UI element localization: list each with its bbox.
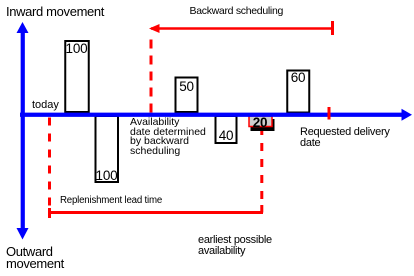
label replenishment lead time [60,196,162,206]
bar supply 50 above axis [176,78,198,113]
label backward scheduling [190,6,284,17]
requested delivery date tick [328,107,331,120]
value 60 [287,71,310,85]
shadow of quantity 20 box [251,119,275,131]
value 100 of below-axis bar [95,169,119,183]
label requested delivery date [300,127,390,149]
replenishment lead time line [48,211,263,214]
red dashed line earliest availability [260,127,263,205]
backward scheduling line [149,21,333,35]
bar requirement 100 below axis [96,116,119,182]
value 50 [175,80,199,94]
bar supply 100 above axis [65,41,89,112]
value 20 [248,116,272,130]
label earliest possible availability [198,235,272,256]
bar supply 60 above axis [287,71,309,113]
quantity 20 box [249,116,272,127]
red dashed line below today [48,118,51,207]
bar requirement 40 below axis [216,116,237,143]
label availability date [130,118,206,157]
horizontal time axis [20,109,412,121]
value 100 of first bar [65,42,89,56]
corner of earliest availability line [260,205,263,213]
value 40 [215,129,238,143]
left cap of replenishment line [48,208,51,218]
label inward movement [6,5,104,18]
vertical axis [17,22,29,240]
label today [32,100,59,111]
label outward movement [6,246,64,271]
red dashed line availability date [150,33,153,113]
